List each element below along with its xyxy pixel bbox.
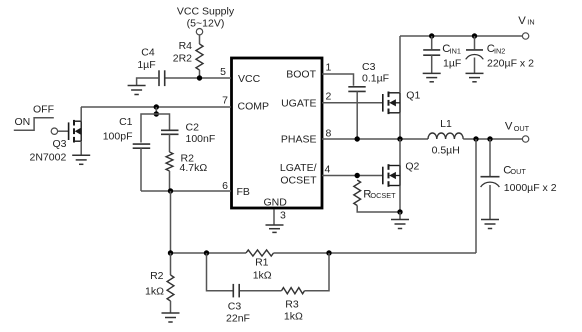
terminal Q3 gate input [51,128,57,134]
svg-text:1kΩ: 1kΩ [253,270,272,282]
wire R4 to VCC pin line [199,70,201,78]
wire split horizontal [141,114,170,143]
junction Q1/Q2/PHASE [397,136,402,141]
capacitor C3 bootstrap [348,87,365,92]
ground R2 [162,313,180,322]
wire GND pin 3 [273,209,275,225]
svg-text:C3: C3 [228,301,242,313]
transistor Q2 [383,164,400,187]
svg-text:OUT: OUT [514,124,530,133]
wire Q3 source to ground [80,141,82,155]
junction CIN2 [472,33,477,38]
wire Q1 drain to VIN rail [399,36,401,93]
junction VCC/R4 [197,75,202,80]
wire C3 to R3 [240,290,282,292]
wire UGATE pin 2 [322,102,382,104]
svg-text:VCC Supply: VCC Supply [177,6,235,18]
svg-text:OFF: OFF [33,104,54,116]
capacitor C2 [161,130,179,134]
svg-text:VCC: VCC [238,73,261,85]
inductor L1 [428,133,463,139]
svg-text:0.1µF: 0.1µF [362,73,389,85]
svg-text:R3: R3 [285,299,299,311]
capacitor C3 bottom [233,284,239,298]
svg-text:ON: ON [15,116,31,128]
svg-text:220µF x 2: 220µF x 2 [487,58,534,70]
wire Q3 drain to COMP line [80,107,82,121]
terminal VIN [522,33,528,39]
resistor R2 4.7k [166,152,173,171]
svg-text:(5~12V): (5~12V) [187,18,225,30]
svg-text:V: V [518,15,526,27]
junction COMP node [154,104,159,109]
ground CIN1 [423,73,441,81]
junction Q2 source/ground [397,209,402,214]
svg-text:4: 4 [325,164,331,176]
capacitor CIN1 [423,50,440,55]
svg-text:GND: GND [264,197,288,209]
svg-text:R1: R1 [255,257,269,269]
wire C4 ground to left plate [137,78,159,86]
svg-text:1µF: 1µF [443,58,461,70]
wire FB pin 6 [141,190,231,192]
svg-text:1: 1 [326,62,332,74]
svg-text:100nF: 100nF [186,133,216,145]
wire BOOT pin 1 [322,74,354,86]
junction ROCSET top [355,173,360,178]
wire COMP pin 7 [81,106,231,108]
wire ROCSET to Q2 source [357,206,400,213]
wire R2 to FB line [169,171,171,191]
wire LGATE/OCSET pin 4 [322,175,382,177]
svg-text:C2: C2 [186,121,200,133]
resistor R3 [282,288,305,294]
wire C4 to pin 5 VCC [166,77,232,79]
resistor R1 [246,250,274,256]
svg-text:V: V [505,121,513,133]
svg-text:BOOT: BOOT [286,69,316,81]
wire COUT to ground [489,185,491,220]
svg-text:Q3: Q3 [53,138,67,150]
svg-text:FB: FB [237,186,250,198]
svg-text:Q2: Q2 [405,160,419,172]
capacitor COUT polarized [481,177,500,187]
capacitor C1 [133,144,151,148]
switch step symbol ON/OFF [14,118,54,130]
svg-text:8: 8 [326,128,332,140]
svg-text:L1: L1 [440,118,452,130]
ground IC pin 3 [266,225,284,232]
wire C1 to FB line [140,148,142,191]
junction C3/PHASE [355,136,360,141]
svg-text:LGATE/: LGATE/ [280,162,317,174]
svg-text:Q1: Q1 [406,90,420,102]
svg-text:1000µF x 2: 1000µF x 2 [504,182,557,194]
svg-text:1kΩ: 1kΩ [284,311,303,323]
svg-text:6: 6 [222,180,228,192]
wire CIN1 to ground [431,55,433,73]
wire R3 up to bus [305,253,330,291]
svg-text:4.7kΩ: 4.7kΩ [180,162,208,174]
ground Q2 [391,220,409,229]
svg-text:IN: IN [527,17,534,26]
svg-text:R4: R4 [179,40,193,52]
capacitor CIN2 polarized [466,50,484,59]
svg-text:2N7002: 2N7002 [30,151,67,163]
wire C2 to R2 [169,134,171,152]
junction bus branch [204,250,209,255]
terminal VCC supply [196,29,202,35]
wire COUT lead [489,139,491,176]
svg-text:1µF: 1µF [137,59,155,71]
wire lower branch left [207,253,233,291]
svg-text:OCSET: OCSET [370,191,396,200]
wire to ground Q2 [399,212,401,220]
resistor ROCSET [354,180,361,206]
wire Q2 drain to PHASE [399,139,401,166]
wire R2 1k from bus [170,253,172,275]
svg-text:22nF: 22nF [226,313,250,325]
ground C4 [128,86,146,95]
wire PHASE pin 8 [322,138,428,140]
svg-text:7: 7 [222,95,228,107]
svg-text:3: 3 [280,210,286,222]
svg-text:0.5µH: 0.5µH [432,144,460,156]
wire bus left segment [171,252,247,254]
wire C3 to PHASE [356,91,358,139]
resistor R4 [196,44,203,70]
wire gate lead Q3 [58,130,69,132]
svg-text:UGATE: UGATE [281,98,316,110]
junction bus right [326,250,331,255]
svg-text:C3: C3 [362,61,376,73]
svg-text:IN1: IN1 [450,46,461,55]
wire R2 to ground [170,301,172,313]
junction feedback/VOUT [473,136,478,141]
wire VOUT down to bus [475,139,477,253]
svg-text:C1: C1 [119,116,133,128]
svg-text:OUT: OUT [510,167,526,176]
wire COMP to split [155,107,157,114]
wire FB down to bus [170,191,172,253]
junction CIN1 [429,33,434,38]
svg-text:PHASE: PHASE [281,134,317,146]
svg-text:IN2: IN2 [494,46,505,55]
transistor Q3 [69,120,82,143]
svg-text:100pF: 100pF [103,131,133,143]
svg-text:OCSET: OCSET [280,175,317,187]
wire L1 to VOUT [463,138,522,140]
wire CIN1 lead [431,36,433,49]
svg-text:5: 5 [220,66,226,78]
wire Q1 source to PHASE [399,113,401,139]
svg-text:C4: C4 [141,47,155,59]
IC U1 body [232,58,323,208]
svg-text:COMP: COMP [238,101,270,113]
junction bus left [168,250,173,255]
junction split C1/C2 [154,111,159,116]
svg-text:2R2: 2R2 [173,53,192,65]
wire VIN rail [400,35,522,37]
junction COUT/VOUT [487,136,492,141]
capacitor C4 [159,70,165,86]
transistor Q1 [383,92,400,115]
wire terminal to R4 [199,35,201,44]
wire CIN2 to ground [474,58,476,74]
wire CIN2 lead [474,36,476,49]
svg-text:R2: R2 [150,270,164,282]
ground Q3 [72,155,90,164]
junction FB node [168,188,173,193]
ground CIN2 [466,73,484,81]
terminal VOUT [522,136,528,142]
svg-text:1kΩ: 1kΩ [145,286,164,298]
svg-text:2: 2 [326,91,332,103]
wire Q2 source down [399,186,401,213]
resistor R2 1k [167,275,174,301]
ground COUT [481,220,499,229]
wire bus right segment [274,252,477,254]
